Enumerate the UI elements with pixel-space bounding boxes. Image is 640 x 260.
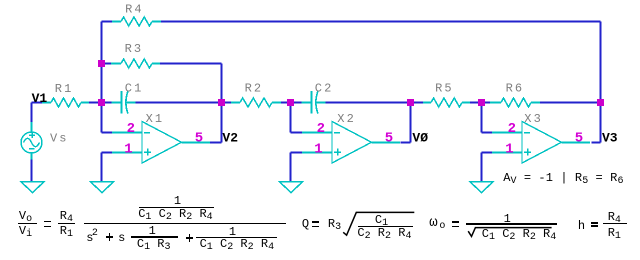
wire: R3 right to V2 vertical bbox=[160, 63, 222, 65]
wire: node A to R3 bbox=[102, 63, 112, 65]
wire: R4 top-left lead bbox=[102, 21, 113, 23]
svg-text:R5: R5 bbox=[435, 81, 454, 95]
capacitor C2 bbox=[302, 91, 326, 114]
svg-text:C1: C1 bbox=[125, 82, 144, 96]
wire: node A to C1 bbox=[102, 102, 113, 104]
wire: V1 input stub bbox=[32, 102, 43, 104]
svg-text:5: 5 bbox=[385, 130, 393, 146]
wire: V3 vertical bbox=[600, 103, 602, 143]
svg-text:R1: R1 bbox=[55, 82, 74, 96]
formula: Q factor bbox=[0, 0, 640, 1]
svg-text:1: 1 bbox=[124, 141, 132, 157]
wire: R6 to node V3 bbox=[540, 102, 601, 104]
junction node V3 bbox=[597, 99, 604, 106]
resistor R4 bbox=[112, 17, 161, 26]
formula: omega_0 resonant frequency bbox=[0, 0, 640, 1]
svg-text:R4: R4 bbox=[125, 3, 144, 17]
svg-text:C2: C2 bbox=[315, 82, 334, 96]
svg-text:R2: R2 bbox=[245, 81, 264, 95]
wire: R4 feedback top rail bbox=[161, 21, 601, 23]
ground below X3 bbox=[470, 182, 493, 193]
svg-text:1: 1 bbox=[314, 141, 322, 157]
svg-text:5: 5 bbox=[195, 130, 203, 146]
resistor R3 bbox=[111, 59, 160, 68]
svg-text:R6: R6 bbox=[506, 81, 525, 95]
wire: R4 right vertical to V3 node bbox=[600, 22, 602, 103]
capacitor C1 bbox=[112, 91, 136, 114]
svg-text:X1: X1 bbox=[146, 112, 165, 126]
annotation: Av = -1 | R5 = R6 bbox=[0, 0, 640, 1]
junction node V2 bbox=[218, 99, 225, 106]
wire: node A down to X1 pin 2 bbox=[101, 103, 103, 133]
svg-text:2: 2 bbox=[317, 121, 325, 137]
svg-text:Vs: Vs bbox=[50, 131, 69, 145]
svg-text:V1: V1 bbox=[32, 91, 48, 106]
svg-text:2: 2 bbox=[127, 121, 135, 137]
ground below X1 bbox=[91, 182, 114, 193]
wire: Vs bottom to ground bbox=[31, 159, 33, 182]
resistor R5 bbox=[423, 98, 470, 107]
resistor R2 bbox=[231, 98, 281, 107]
op-amp X2 bbox=[302, 122, 400, 164]
wire: X3 output to V3 vertical bbox=[592, 142, 601, 144]
svg-text:1: 1 bbox=[505, 141, 513, 157]
wire: R2 to node B bbox=[281, 102, 291, 104]
wire: node C down to X3 pin 2 bbox=[481, 103, 483, 133]
wire: X1 pin 1 to ground bbox=[102, 152, 113, 154]
wire: node V0 to R5 bbox=[411, 102, 424, 104]
wire: node B to C2 bbox=[291, 102, 302, 104]
resistor R1 bbox=[42, 98, 89, 107]
formula: transfer function Vo/Vi numerator-denominator bbox=[0, 0, 640, 1]
wire: R5 to node C bbox=[470, 102, 482, 104]
svg-text:R3: R3 bbox=[125, 42, 144, 56]
svg-text:2: 2 bbox=[508, 121, 516, 137]
wire: X1 output to V2 vertical bbox=[210, 142, 222, 144]
ground below Vs bbox=[21, 182, 44, 193]
op-amp X3 bbox=[492, 122, 590, 164]
svg-text:X2: X2 bbox=[337, 112, 356, 126]
voltage source Vs bbox=[21, 122, 42, 160]
svg-text:X3: X3 bbox=[524, 112, 543, 126]
wire: X3 pin 1 to ground bbox=[482, 152, 493, 154]
svg-text:V2: V2 bbox=[222, 131, 238, 146]
junction node A / R3 tap bbox=[98, 60, 105, 67]
wire: X2 output to V0 vertical bbox=[401, 142, 411, 144]
junction node B bbox=[287, 99, 294, 106]
op-amp X1 bbox=[112, 122, 210, 164]
wire: C2 to node V0 bbox=[326, 102, 411, 104]
resistor R6 bbox=[490, 98, 540, 107]
junction node V0 bbox=[407, 99, 414, 106]
wire: V1 down to Vs source bbox=[31, 103, 33, 125]
wire: X2 pin 1 to ground bbox=[291, 152, 303, 154]
ground below X2 bbox=[280, 182, 303, 193]
svg-text:VØ: VØ bbox=[412, 131, 428, 146]
svg-text:5: 5 bbox=[575, 130, 583, 146]
svg-text:V3: V3 bbox=[602, 131, 618, 146]
junction node C bbox=[478, 99, 485, 106]
wire: C1 to node V2 bbox=[136, 102, 222, 104]
formula: h gain bbox=[0, 0, 640, 1]
junction node A (summing input) bbox=[98, 99, 105, 106]
wire: R1 to node A bbox=[88, 102, 102, 104]
wire: R3/X1-output vertical through node V2 bbox=[221, 64, 223, 143]
wire: node B down to X2 pin 2 bbox=[290, 103, 292, 133]
wire: node A vertical branch bbox=[101, 22, 103, 103]
wire: V0 vertical bbox=[410, 103, 412, 143]
wire: node C to R6 bbox=[482, 102, 491, 104]
wire: node V2 to R2 bbox=[222, 102, 232, 104]
